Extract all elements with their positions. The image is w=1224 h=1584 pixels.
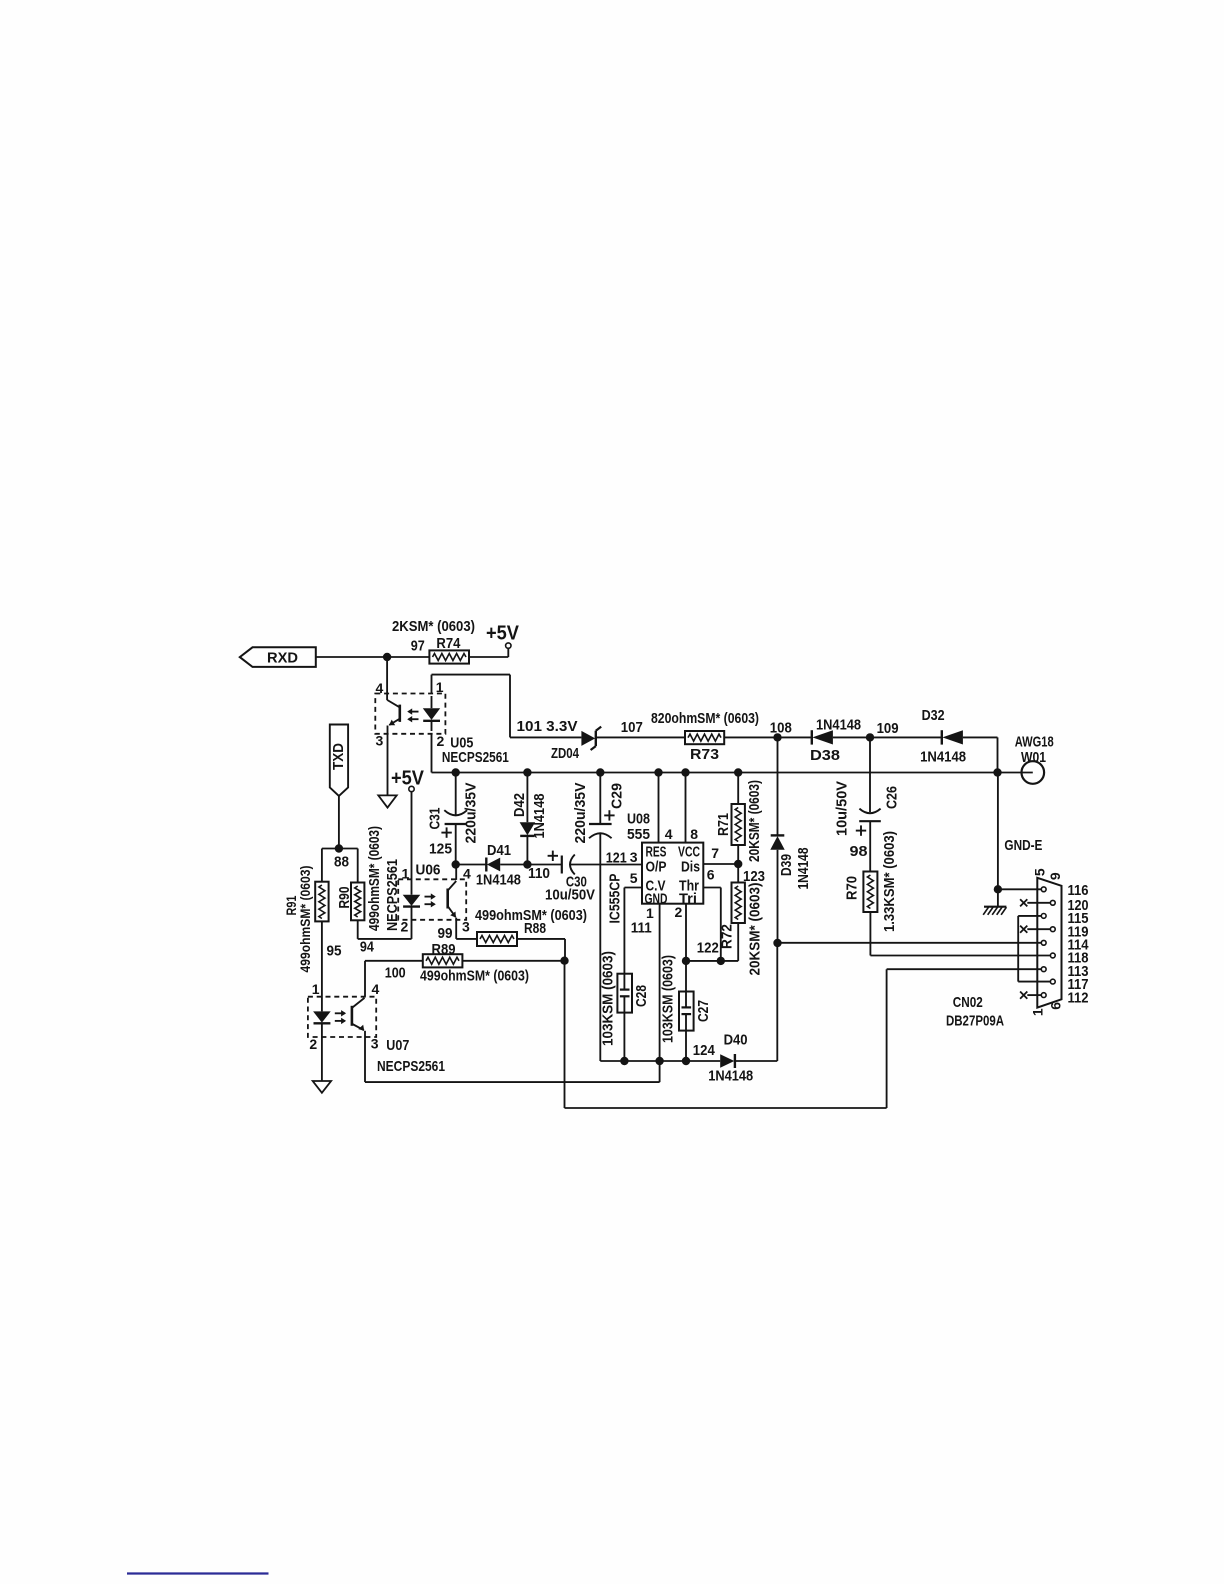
wire node108 to D39 xyxy=(777,737,779,834)
svg-text:20KSM* (0603): 20KSM* (0603) xyxy=(746,780,763,862)
svg-text:6: 6 xyxy=(1048,1002,1064,1010)
svg-text:123: 123 xyxy=(743,868,765,885)
wire GND-E to pin 116 xyxy=(998,888,1042,890)
node C28 ground junction dot xyxy=(620,1057,628,1065)
wire R91 to U07 pin1 xyxy=(321,921,323,1011)
wire C29 down to ground bus xyxy=(599,833,601,1061)
node 555 pin8 junction dot xyxy=(681,768,689,776)
resistor R90 499ohmSM* (0603) xyxy=(336,826,383,956)
diode D40 1N4148 xyxy=(708,1032,753,1085)
resistor R73 820ohmSM* (0603) xyxy=(651,710,759,763)
svg-text:4: 4 xyxy=(463,866,471,882)
svg-text:111: 111 xyxy=(631,920,652,937)
ground (U07 pin2) xyxy=(313,1081,331,1093)
wire D40 to node 114 xyxy=(735,943,777,1061)
wire D38 to node 109 xyxy=(833,720,899,737)
node RXD port tag xyxy=(240,647,316,667)
svg-text:R71: R71 xyxy=(715,813,732,836)
diode D32 1N4148 xyxy=(920,707,966,766)
wire R89 to U07 pin4 xyxy=(365,961,423,997)
svg-text:R73: R73 xyxy=(690,746,719,763)
capacitor C27 103KSM (0603) xyxy=(659,955,712,1043)
capacitor C29 220u/35V xyxy=(572,783,626,844)
svg-text:6: 6 xyxy=(707,867,715,883)
svg-text:99: 99 xyxy=(438,925,453,942)
svg-text:1N4148: 1N4148 xyxy=(476,872,521,889)
footer rule xyxy=(127,1572,269,1574)
wire 555 pin1 to ground bus xyxy=(659,904,661,1082)
ground (U05 pin3) xyxy=(378,795,396,807)
svg-text:555: 555 xyxy=(627,826,650,843)
ground GND-E earth symbol xyxy=(983,907,1006,915)
wire node109 to D32 xyxy=(870,736,942,738)
connector CN02 DB27P09A outline xyxy=(946,868,1064,1029)
svg-text:IC555CP: IC555CP xyxy=(606,874,623,924)
wire node88 to R91 xyxy=(321,849,323,882)
svg-text:D40: D40 xyxy=(724,1032,748,1049)
node 100 junction dot xyxy=(385,957,569,982)
svg-text:108: 108 xyxy=(770,720,792,737)
wire bus to D42 xyxy=(526,773,528,823)
svg-text:R72: R72 xyxy=(718,924,735,949)
wire 101 3.3V label xyxy=(517,718,578,735)
svg-text:1N4148: 1N4148 xyxy=(816,717,861,734)
svg-text:NECPS2561: NECPS2561 xyxy=(377,1058,445,1075)
svg-text:RXD: RXD xyxy=(267,650,298,667)
svg-text:+5V: +5V xyxy=(391,768,425,790)
svg-text:9: 9 xyxy=(1047,872,1063,880)
wire U06 pin3 to R88 xyxy=(438,918,478,942)
svg-text:110: 110 xyxy=(528,865,550,882)
wire D39 to node 114 xyxy=(777,850,779,943)
wire ground bus xyxy=(600,1042,720,1061)
node 88 junction dot xyxy=(334,844,349,870)
wire R88 to node 100 xyxy=(517,939,565,961)
pin 114 circle xyxy=(1041,937,1089,954)
pin 116 circle xyxy=(1041,882,1088,899)
svg-text:ZD04: ZD04 xyxy=(551,745,579,762)
resistor R72 20KSM* (0603) xyxy=(718,883,763,976)
svg-text:C26: C26 xyxy=(883,786,900,809)
svg-text:+5V: +5V xyxy=(486,623,520,645)
svg-text:1N4148: 1N4148 xyxy=(795,848,812,890)
svg-text:95: 95 xyxy=(327,943,342,960)
svg-text:GND-E: GND-E xyxy=(1004,837,1042,854)
node 123 junction dot xyxy=(734,860,765,885)
svg-text:499ohmSM* (0603): 499ohmSM* (0603) xyxy=(475,907,587,924)
wire 555 pin7 to node 123 xyxy=(703,863,738,865)
svg-text:O/P: O/P xyxy=(646,860,667,876)
svg-text:103KSM (0603): 103KSM (0603) xyxy=(659,955,676,1043)
svg-text:3: 3 xyxy=(462,919,470,935)
svg-text:5: 5 xyxy=(630,870,638,886)
diode D41 1N4148 xyxy=(476,842,521,889)
svg-text:10u/50V: 10u/50V xyxy=(545,887,595,904)
svg-text:220u/35V: 220u/35V xyxy=(462,783,479,844)
wire RXD to junction xyxy=(316,656,387,658)
svg-text:D42: D42 xyxy=(511,793,528,817)
node TXD port tag xyxy=(330,725,348,796)
svg-text:TXD: TXD xyxy=(330,743,347,770)
svg-text:R70: R70 xyxy=(843,876,860,900)
svg-text:DB27P09A: DB27P09A xyxy=(946,1013,1004,1030)
zener ZD04 3.3V xyxy=(551,727,601,762)
wire node125 to D41 xyxy=(456,864,487,866)
wire node110 to C30 xyxy=(527,864,561,866)
svg-text:121: 121 xyxy=(606,850,627,867)
wire U07 pin2 to ground xyxy=(321,1023,323,1081)
node 109 junction dot xyxy=(866,733,874,741)
svg-text:2KSM* (0603): 2KSM* (0603) xyxy=(392,618,475,635)
wire C27 to ground bus xyxy=(685,1014,687,1061)
wire node100 to bottom loop xyxy=(565,961,887,1108)
resistor R74 2KSM* (0603) xyxy=(392,618,475,664)
svg-text:D38: D38 xyxy=(810,747,840,764)
svg-text:1N4148: 1N4148 xyxy=(708,1068,753,1085)
svg-text:3: 3 xyxy=(376,733,384,749)
svg-text:101 3.3V: 101 3.3V xyxy=(517,718,578,735)
svg-text:4: 4 xyxy=(372,981,380,997)
svg-text:1: 1 xyxy=(402,866,410,882)
svg-text:2: 2 xyxy=(675,904,683,920)
svg-text:107: 107 xyxy=(621,719,643,736)
wire AWG corner to GND-E xyxy=(998,773,1043,907)
svg-text:NECPS2561: NECPS2561 xyxy=(384,859,401,931)
svg-text:4: 4 xyxy=(376,680,384,696)
svg-text:D39: D39 xyxy=(778,854,795,876)
wire ZD04 to R73 xyxy=(596,719,685,737)
svg-text:C27: C27 xyxy=(695,1000,712,1022)
wire D41 to node 110 xyxy=(500,864,527,866)
wire bus to R71 xyxy=(737,773,739,805)
wire DB9 inner bus 115-117 xyxy=(1017,916,1019,982)
pin 7 label xyxy=(711,845,719,861)
svg-text:20KSM* (0603): 20KSM* (0603) xyxy=(746,883,763,976)
svg-text:2: 2 xyxy=(401,919,409,935)
wire C30 to 555 pin3 (node 121) xyxy=(570,850,642,867)
wire to pin 113 xyxy=(887,968,1042,970)
wire C31 to node 125 xyxy=(455,824,457,865)
svg-text:1N4148: 1N4148 xyxy=(531,794,548,839)
svg-text:R74: R74 xyxy=(436,635,461,652)
svg-text:1: 1 xyxy=(436,679,444,695)
svg-text:1N4148: 1N4148 xyxy=(920,749,966,766)
wire U06 pin2 down xyxy=(411,907,413,939)
pin 113 circle xyxy=(1041,963,1088,980)
svg-text:1: 1 xyxy=(646,905,654,921)
node AWG corner junction dot xyxy=(993,768,1001,776)
wire U06 pin4 to node 125 xyxy=(455,865,457,880)
wire R89 to node 100 xyxy=(462,960,564,962)
node C27 ground junction dot xyxy=(682,1057,690,1065)
wire U05 pin2 to bus xyxy=(431,734,433,773)
optocoupler U06 NECPS2561 xyxy=(384,859,471,935)
svg-text:U08: U08 xyxy=(627,811,650,828)
wire R74 to +5V xyxy=(469,648,508,657)
pin 120 no-connect xyxy=(1020,897,1088,914)
wire 555 pin2 to node 122 xyxy=(685,904,687,1008)
svg-text:88: 88 xyxy=(334,854,349,871)
wire node109 to C26 xyxy=(869,737,871,812)
wire U07 pin3 to ground bus xyxy=(365,1031,660,1082)
node 555 GND junction dot xyxy=(655,1057,663,1065)
svg-text:3: 3 xyxy=(371,1036,379,1052)
svg-text:112: 112 xyxy=(1068,990,1089,1007)
diode D38 1N4148 xyxy=(810,717,861,765)
wire R71 to node 123 xyxy=(737,845,739,883)
pin 115 stub xyxy=(1018,910,1088,927)
svg-text:C28: C28 xyxy=(633,985,650,1007)
node 110 junction dot xyxy=(523,860,550,882)
pin 117 stub xyxy=(1018,976,1088,993)
pin 119 no-connect xyxy=(1020,924,1088,941)
svg-text:1.33KSM* (0603): 1.33KSM* (0603) xyxy=(881,831,898,932)
wire D42 to node 110 xyxy=(526,836,528,865)
svg-text:RES: RES xyxy=(646,845,667,861)
node 125 junction dot xyxy=(452,860,460,868)
svg-text:499ohmSM* (0603): 499ohmSM* (0603) xyxy=(297,866,313,973)
svg-text:R89: R89 xyxy=(432,941,456,958)
node AWG18 W01 terminal xyxy=(998,734,1054,784)
pin 3 label xyxy=(630,849,638,865)
wire C26 to R70 xyxy=(869,821,871,871)
svg-text:2: 2 xyxy=(309,1036,317,1052)
svg-text:C31: C31 xyxy=(427,808,444,830)
svg-text:3: 3 xyxy=(630,849,638,865)
svg-text:U07: U07 xyxy=(386,1037,409,1054)
optocoupler U05 NECPS2561 xyxy=(375,679,509,766)
wire R90 bottom to U06 pin2 xyxy=(358,920,412,939)
node C31 top junction dot xyxy=(452,768,460,776)
wire node 88 horizontal xyxy=(322,848,358,850)
capacitor C30 10u/50V xyxy=(545,851,595,904)
wire 3.3V bus xyxy=(432,772,998,774)
svg-text:125: 125 xyxy=(429,841,452,858)
svg-text:VCC: VCC xyxy=(678,845,700,861)
power +5V terminal (U06) xyxy=(391,768,425,792)
wire bus to C29 xyxy=(599,773,601,825)
svg-text:D32: D32 xyxy=(922,707,945,724)
node C29 top junction dot xyxy=(596,768,604,776)
svg-text:8: 8 xyxy=(690,826,698,842)
wire 555 pin5 to C28 xyxy=(624,888,642,990)
wire U05 pin4 from junction xyxy=(386,657,388,694)
node D42 top junction dot xyxy=(523,768,531,776)
wire node88 to R90 xyxy=(357,849,359,883)
node 555 pin4 junction dot xyxy=(654,768,662,776)
svg-text:94: 94 xyxy=(360,939,375,956)
svg-text:NECPS2561: NECPS2561 xyxy=(442,749,509,766)
pin 1 label xyxy=(646,905,654,921)
wire U05 pin1 to 3.3V line xyxy=(432,675,511,738)
diode D42 1N4148 xyxy=(511,793,548,839)
svg-text:C29: C29 xyxy=(608,783,625,809)
node R71 top junction dot xyxy=(734,768,742,776)
svg-text:7: 7 xyxy=(711,845,719,861)
node 122 pin6 junction dot xyxy=(717,957,725,965)
node 97 junction dot xyxy=(383,653,391,661)
svg-text:R90: R90 xyxy=(336,887,353,909)
svg-text:10u/50V: 10u/50V xyxy=(833,781,850,836)
svg-text:98: 98 xyxy=(850,843,868,860)
wire bus to C31 xyxy=(455,773,457,816)
svg-text:Dis: Dis xyxy=(681,860,700,876)
op-amp U08 IC555CP timer box xyxy=(606,811,703,937)
pin 6 label xyxy=(707,867,715,883)
wire TXD to node 88 xyxy=(338,796,340,849)
svg-text:2: 2 xyxy=(437,733,445,749)
svg-text:97: 97 xyxy=(411,638,425,655)
capacitor C31 220u/35V xyxy=(427,783,480,858)
wire node108 to D38 xyxy=(778,736,812,738)
pin 112 no-connect xyxy=(1020,990,1088,1007)
resistor R71 20KSM* (0603) xyxy=(715,780,763,862)
resistor R88 499ohmSM* (0603) xyxy=(475,907,587,946)
resistor R91 499ohmSM* (0603) xyxy=(283,866,341,973)
svg-text:499ohmSM* (0603): 499ohmSM* (0603) xyxy=(420,968,529,985)
wire junction to R74 xyxy=(387,656,429,658)
svg-text:109: 109 xyxy=(877,720,899,737)
pin 2 label xyxy=(675,904,683,920)
node 114 junction dot xyxy=(773,939,781,947)
diode D39 1N4148 xyxy=(770,835,811,889)
pin 118 circle xyxy=(1050,950,1088,967)
svg-text:1: 1 xyxy=(312,981,320,997)
wire D32 to AWG corner xyxy=(963,737,998,772)
svg-text:499ohmSM* (0603): 499ohmSM* (0603) xyxy=(366,826,383,931)
capacitor C26 10u/50V xyxy=(833,781,900,860)
svg-text:100: 100 xyxy=(385,965,406,982)
resistor R70 1.33KSM* (0603) xyxy=(843,831,898,932)
svg-text:CN02: CN02 xyxy=(953,994,983,1011)
wire 555 pin6 to node 122 xyxy=(703,888,721,961)
power +5V terminal (top) xyxy=(486,623,520,649)
svg-text:1: 1 xyxy=(1030,1008,1046,1016)
wire R73 to node 108 xyxy=(724,720,792,738)
svg-text:D41: D41 xyxy=(487,842,511,859)
wire C28 to ground bus xyxy=(623,996,625,1061)
node 108 junction dot xyxy=(773,733,781,741)
svg-text:AWG18: AWG18 xyxy=(1015,734,1054,751)
svg-text:W01: W01 xyxy=(1021,749,1046,766)
svg-text:820ohmSM* (0603): 820ohmSM* (0603) xyxy=(651,710,759,727)
optocoupler U07 NECPS2561 xyxy=(308,981,445,1075)
node 122 pin2 junction dot xyxy=(682,957,690,965)
wire R70 to pin 118 xyxy=(870,912,1050,956)
svg-text:122: 122 xyxy=(697,940,719,957)
pin 5 label xyxy=(630,870,638,886)
svg-text:124: 124 xyxy=(693,1042,716,1059)
svg-text:220u/35V: 220u/35V xyxy=(572,783,589,844)
wire +5V to U06 pin1 xyxy=(411,792,413,895)
wire node114 to pin 114 xyxy=(778,942,1042,944)
svg-text:103KSM (0603): 103KSM (0603) xyxy=(599,951,616,1046)
capacitor C28 103KSM (0603) xyxy=(599,951,650,1046)
svg-text:4: 4 xyxy=(665,826,673,842)
wire U05pin1 line to ZD04 xyxy=(510,736,581,738)
svg-text:5: 5 xyxy=(1031,868,1047,876)
wire bus to 555 pin8 xyxy=(686,773,699,843)
wire U05 pin3 to ground xyxy=(387,726,389,796)
resistor R89 499ohmSM* (0603) xyxy=(420,941,529,985)
wire bus to 555 pin4 xyxy=(659,773,673,843)
wire R72 to node 122 xyxy=(686,923,738,961)
node GND-E junction dot xyxy=(994,885,1002,893)
svg-text:U06: U06 xyxy=(416,862,441,879)
